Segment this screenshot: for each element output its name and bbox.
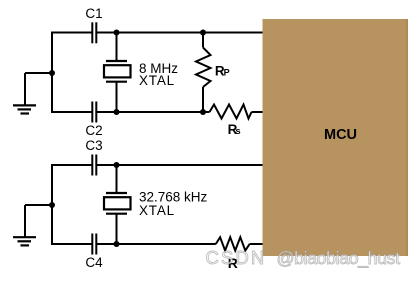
resistor R (LSE series)	[216, 237, 250, 250]
watermark @biaobiao_hust	[277, 248, 400, 268]
wire: X2 top branch	[116, 165, 118, 193]
wire: HSE bottom rail C2 to RS	[97, 111, 210, 113]
node: crystal X2 bottom junction	[114, 241, 120, 247]
wire: HSE top rail right of C1	[97, 32, 263, 34]
node: RP bottom junction	[200, 109, 206, 115]
MCU block U1	[263, 19, 409, 256]
label: X2 value 32.768 kHz XTAL	[139, 190, 208, 218]
wire: LSE top rail right of C3	[97, 164, 263, 166]
node: ground junction 2	[49, 202, 55, 208]
wire: left rail circuit 2	[51, 164, 53, 245]
svg-text:C1: C1	[85, 6, 102, 21]
wire: ground 2 horizontal	[25, 204, 52, 206]
svg-text:C2: C2	[85, 123, 102, 138]
wire: ground 1 horizontal	[25, 72, 52, 74]
wire: ground 2 vertical	[24, 205, 26, 237]
wire: HSE bottom rail left of C2	[51, 111, 92, 113]
crystal X1 (8 MHz XTAL)	[104, 61, 131, 82]
wire: LSE bottom rail left of C4	[51, 243, 92, 245]
wire: X1 bottom branch	[116, 82, 118, 112]
watermark CSDN	[206, 247, 267, 268]
label: X1 value 8 MHz XTAL	[139, 61, 178, 88]
ground GND1	[13, 105, 36, 113]
svg-text:C3: C3	[85, 138, 102, 153]
label RS	[228, 122, 241, 137]
wire: X2 bottom branch	[116, 214, 118, 244]
svg-text:C4: C4	[85, 255, 103, 270]
capacitor C4	[92, 234, 96, 255]
resistor RP (parallel)	[196, 33, 211, 113]
label RP	[215, 63, 230, 78]
wire: LSE bottom rail C4 to R	[97, 243, 216, 245]
capacitor C1	[92, 22, 96, 43]
node: crystal X2 top junction	[114, 162, 120, 168]
resistor RS (series)	[210, 105, 252, 119]
wire: HSE top rail left of C1	[51, 32, 92, 34]
ground GND2	[13, 237, 36, 245]
crystal X2 (32.768 kHz XTAL)	[104, 193, 131, 214]
wire: left rail circuit 1	[51, 32, 53, 114]
node: RP top junction	[200, 30, 206, 36]
svg-text:s: s	[235, 126, 240, 137]
svg-text:MCU: MCU	[324, 127, 357, 143]
capacitor C3	[92, 155, 96, 176]
svg-text:XTAL: XTAL	[139, 203, 175, 218]
wire: LSE top rail left of C3	[51, 164, 92, 166]
wire: ground 1 vertical	[24, 73, 26, 105]
svg-text:XTAL: XTAL	[139, 73, 175, 88]
wire: RS to MCU	[252, 111, 263, 113]
capacitor C2	[92, 102, 96, 123]
node: crystal X1 bottom junction	[114, 109, 120, 115]
node: ground junction 1	[49, 70, 55, 76]
svg-text:P: P	[224, 68, 230, 78]
wire: R to MCU	[250, 243, 263, 245]
node: OSC_IN junction (crystal X1 top)	[114, 30, 120, 36]
wire: X1 top branch	[116, 33, 118, 62]
